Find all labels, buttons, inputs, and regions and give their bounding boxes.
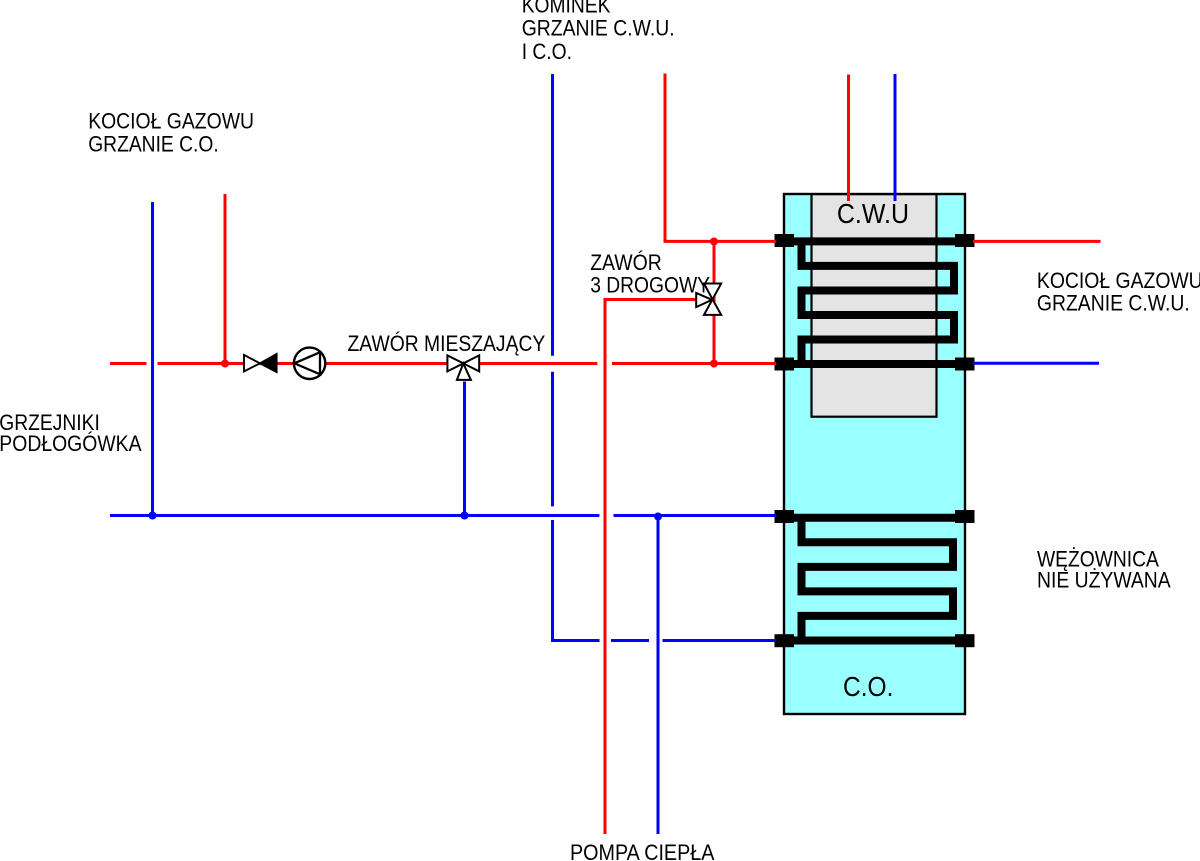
svg-text:GRZANIE C.W.U.: GRZANIE C.W.U.	[522, 16, 675, 41]
wire blue kominek vertical mid	[551, 372, 554, 507]
wire blue tank to kociol gazowy c.w.u.	[973, 362, 1099, 365]
wire blue grzejniki vertical	[151, 202, 154, 516]
junction dot blue pompa ciepla	[654, 513, 662, 521]
buffer tank body	[784, 194, 965, 714]
svg-text:GRZANIE C.W.U.: GRZANIE C.W.U.	[1037, 290, 1190, 315]
wire blue pompa ciepla vertical	[657, 516, 660, 835]
svg-text:C.O.: C.O.	[843, 671, 893, 702]
junction dot red at 3-way bottom	[710, 360, 718, 368]
junction dot red at 3-way top	[710, 238, 718, 246]
wire red kominek vertical	[664, 74, 667, 242]
wire red tank top stub	[847, 75, 850, 202]
nozzle right top (C.W.U return)	[955, 234, 975, 247]
wire red pompa ciepla vertical	[604, 300, 607, 835]
wire blue tank top stub	[894, 74, 897, 201]
wire blue main horizontal y515 right segment	[614, 514, 777, 517]
nozzle right bottom C.O.	[955, 634, 975, 647]
nozzle left top C.O.	[775, 510, 795, 523]
wire red to 3-way valve horizontal	[604, 298, 701, 301]
check valve	[244, 354, 277, 372]
tank C.W.U inner grey section	[812, 194, 937, 417]
wire blue mixing valve drop	[463, 382, 466, 516]
svg-text:POMPA CIEPŁA: POMPA CIEPŁA	[570, 840, 715, 861]
3-way valve (zawor 3 drogowy)	[696, 284, 721, 315]
junction dot blue grzejniki	[149, 512, 157, 520]
mixing valve (zawor mieszajacy)	[447, 355, 479, 380]
wire blue main horizontal y515 left segment	[110, 514, 599, 517]
wire blue y640 mid segment	[611, 639, 649, 642]
wire red main horizontal y363 right segment	[612, 362, 776, 365]
svg-text:PODŁOGÓWKA: PODŁOGÓWKA	[0, 431, 142, 456]
wire blue kominek vertical upper	[551, 74, 554, 356]
svg-text:KOCIOŁ GAZOWU: KOCIOŁ GAZOWU	[88, 109, 254, 134]
wire blue y640 right segment	[663, 639, 777, 642]
wire red 3-way riser	[713, 241, 716, 363]
label wezownica nie uzywana	[1037, 547, 1171, 593]
label grzejniki podlogowka	[0, 410, 142, 456]
wire blue kominek vertical lower + elbow	[553, 520, 600, 641]
nozzle right bottom C.W.U	[955, 358, 975, 371]
wire red main horizontal y363 left segment	[110, 362, 147, 365]
nozzle left bottom C.W.U	[775, 358, 795, 371]
nozzle left top (C.W.U supply)	[775, 234, 795, 247]
svg-text:3 DROGOWY: 3 DROGOWY	[590, 273, 710, 298]
wire red tank to kociol gazowy c.w.u.	[973, 240, 1101, 243]
svg-text:I C.O.: I C.O.	[522, 39, 572, 64]
svg-text:NIE UŻYWANA: NIE UŻYWANA	[1037, 568, 1171, 593]
C.W.U heat-exchanger coil	[776, 241, 964, 364]
wire red main horizontal y363 mid segment	[158, 362, 598, 365]
label kominek	[522, 0, 675, 64]
svg-text:ZAWÓR: ZAWÓR	[590, 250, 662, 275]
label kociol gazowy c.o.	[88, 109, 254, 157]
wire red kociol gazowy c.o. vertical	[224, 194, 227, 364]
wire red kominek to tank horizontal	[664, 240, 777, 243]
junction dot red kociol riser	[221, 360, 229, 368]
label kociol gazowy c.w.u.	[1037, 268, 1200, 315]
svg-text:C.W.U: C.W.U	[837, 198, 909, 229]
svg-text:ZAWÓR MIESZAJĄCY: ZAWÓR MIESZAJĄCY	[348, 331, 546, 356]
svg-text:GRZANIE C.O.: GRZANIE C.O.	[88, 132, 219, 157]
C.O. heat-exchanger coil (wezownica)	[776, 518, 964, 641]
pump	[294, 348, 325, 379]
junction dot blue mixing valve drop	[461, 512, 469, 520]
nozzle right top C.O.	[955, 510, 975, 523]
label zawor 3 drogowy	[590, 250, 710, 298]
nozzle left bottom C.O.	[775, 634, 795, 647]
